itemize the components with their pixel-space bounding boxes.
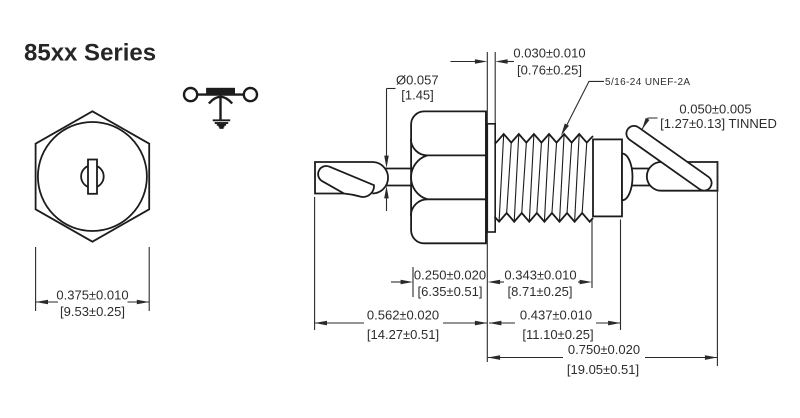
svg-text:[11.10±0.25]: [11.10±0.25] [522, 327, 593, 342]
hexagon outline [36, 111, 150, 241]
svg-text:0.437±0.010: 0.437±0.010 [520, 308, 592, 323]
flange extension line left [486, 52, 488, 362]
left lead straight outline [315, 162, 388, 194]
dimension 0.343 arrows [578, 281, 584, 283]
svg-text:0.250±0.020: 0.250±0.020 [414, 268, 486, 283]
svg-text:0.562±0.020: 0.562±0.020 [367, 308, 439, 323]
left lead stub [378, 168, 414, 170]
svg-text:[9.53±0.25]: [9.53±0.25] [60, 304, 125, 319]
svg-text:0.050±0.005: 0.050±0.005 [679, 102, 751, 117]
svg-text:[0.76±0.25]: [0.76±0.25] [517, 63, 582, 78]
thread flank lines [499, 134, 587, 222]
thread bottom zigzag [495, 213, 594, 222]
end dome [622, 154, 633, 201]
symbol ground lead [219, 95, 221, 120]
chassis ground symbol [213, 120, 231, 128]
hex body right face [485, 111, 487, 243]
dimension 0.562 line and arrows [315, 322, 364, 324]
svg-text:[6.35±0.51]: [6.35±0.51] [418, 284, 483, 299]
svg-text:0.375±0.010: 0.375±0.010 [56, 288, 128, 303]
svg-text:0.343±0.010: 0.343±0.010 [504, 268, 576, 283]
mounting flange [487, 124, 495, 232]
svg-text:85xx Series: 85xx Series [24, 40, 156, 67]
svg-text:[8.71±0.25]: [8.71±0.25] [508, 284, 573, 299]
dimension 0.375 line and arrows [36, 301, 58, 303]
dimension 0.250 extension line [412, 267, 414, 297]
body circle [38, 122, 147, 231]
dimension 0.437 line and arrows [489, 322, 515, 324]
dimension 0.343 extension line [591, 220, 593, 288]
slot [88, 160, 97, 194]
feedthrough line [197, 93, 243, 95]
rear cylinder [593, 139, 622, 216]
thread callout leader [563, 81, 604, 132]
capacitor plate (straight) [207, 89, 234, 92]
hex facet divider upper [427, 154, 486, 156]
dimension 0.375 extension lines [35, 247, 37, 311]
right lead stub [626, 168, 655, 170]
hex facet arc top [411, 139, 428, 156]
dimension 0.030 arrows [451, 61, 477, 63]
left lead bent section [318, 166, 374, 197]
dimension 0.750 extension line [716, 161, 718, 366]
terminal circle left [184, 88, 197, 101]
hex nut front view [36, 111, 150, 241]
capacitor plate (curved) [209, 97, 232, 104]
svg-text:[19.05±0.51]: [19.05±0.51] [567, 362, 639, 377]
svg-text:5/16-24 UNEF-2A: 5/16-24 UNEF-2A [605, 77, 690, 88]
dimension 0.057 leader [386, 89, 388, 158]
svg-text:0.750±0.020: 0.750±0.020 [568, 342, 640, 357]
svg-text:0.030±0.010: 0.030±0.010 [513, 46, 585, 61]
svg-text:Ø0.057: Ø0.057 [396, 73, 439, 88]
thread top zigzag [495, 134, 594, 144]
feedthrough capacitor schematic symbol [184, 88, 257, 120]
hex facet arc middle [411, 155, 427, 199]
hex body outline (side view) [411, 111, 486, 243]
hex facet divider lower [427, 198, 486, 200]
svg-text:[1.27±0.13] TINNED: [1.27±0.13] TINNED [660, 116, 777, 131]
dimension 0.437 extension line [620, 220, 622, 331]
terminal circle right [244, 88, 257, 101]
right lead straight outline [647, 162, 718, 191]
center bushing circle [81, 165, 104, 188]
flange extension line right [494, 52, 496, 232]
svg-text:[14.27±0.51]: [14.27±0.51] [367, 327, 439, 342]
right lead bent section [626, 126, 711, 191]
dimension 0.562 extension line [314, 197, 316, 330]
hex facet arc bottom [411, 199, 428, 216]
dimension 0.050 leader [642, 118, 658, 130]
svg-text:[1.45]: [1.45] [401, 88, 434, 103]
dimension 0.750 line and arrows [488, 357, 563, 359]
dimension 0.250 arrows [391, 281, 402, 283]
